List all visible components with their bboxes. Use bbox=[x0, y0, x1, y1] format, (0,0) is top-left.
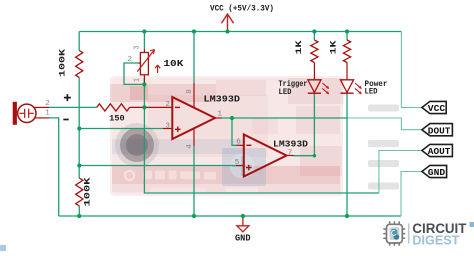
junction: pin4/gnd bbox=[192, 214, 196, 218]
svg-text:5: 5 bbox=[235, 159, 240, 167]
wire: op-amp U1A pin 4 to ground rail bbox=[193, 146, 195, 216]
flag AOUT bbox=[422, 144, 453, 156]
svg-text:VCC: VCC bbox=[428, 104, 446, 114]
svg-text:8: 8 bbox=[186, 89, 194, 94]
wire: op-amp U1A pin 8 to VCC rail bbox=[193, 32, 195, 84]
CircuitDigest logo bbox=[383, 221, 466, 248]
wire: trigger LED top / 1K R5 column bbox=[313, 32, 315, 41]
svg-text:LM393D: LM393D bbox=[204, 94, 241, 105]
svg-text:150: 150 bbox=[109, 114, 125, 124]
svg-text:LM393D: LM393D bbox=[273, 138, 308, 149]
svg-text:100K: 100K bbox=[58, 48, 68, 77]
junction: U1B out / trigger LED bbox=[313, 154, 316, 157]
svg-text:1: 1 bbox=[134, 78, 142, 82]
ground symbol GND bbox=[242, 216, 244, 226]
mic + polarity mark bbox=[64, 94, 71, 101]
microphone MK1 bbox=[13, 102, 50, 125]
wire: pot top to VCC rail bbox=[143, 32, 145, 50]
wire: pot wiper loop bbox=[124, 63, 144, 84]
junction: pot/mic node bbox=[142, 105, 146, 109]
svg-text:3: 3 bbox=[134, 45, 142, 49]
flag GND bbox=[422, 165, 447, 177]
resistor R5 1K (trigger) bbox=[311, 40, 318, 63]
junction: VCC symbol bbox=[225, 29, 229, 33]
svg-text:AOUT: AOUT bbox=[428, 147, 451, 157]
svg-text:LED: LED bbox=[365, 87, 378, 96]
wire: mic pin1 to ground rail bbox=[49, 118, 59, 216]
wire: VCC rail down to VCC flag bbox=[401, 32, 422, 108]
resistor R1 100K (top left) bbox=[76, 51, 83, 78]
mic - polarity mark bbox=[63, 119, 68, 121]
junction: LED2/gnd bbox=[345, 214, 349, 218]
svg-text:DIGEST: DIGEST bbox=[412, 233, 459, 248]
wire: U1B pin 7 output up to trigger LED bbox=[293, 94, 314, 156]
svg-text:100K: 100K bbox=[83, 176, 93, 206]
resistor R2 150 bbox=[97, 104, 130, 111]
resistor R6 1K (power) bbox=[343, 40, 350, 63]
wire: pot bottom to mic node bbox=[143, 78, 145, 107]
svg-text:6: 6 bbox=[236, 138, 241, 146]
svg-text:10K: 10K bbox=[163, 58, 183, 69]
flag DOUT bbox=[422, 124, 453, 136]
resistor R4 100K (bottom left) bbox=[76, 178, 83, 206]
junction: gnd symbol bbox=[241, 214, 245, 218]
stray blue mark right edge bbox=[470, 222, 474, 227]
svg-text:GND: GND bbox=[235, 234, 251, 244]
potentiometer R3 10K bbox=[137, 49, 160, 84]
junction: ref/pin3 bbox=[77, 126, 81, 130]
svg-text:1K: 1K bbox=[329, 39, 339, 54]
svg-text:1: 1 bbox=[45, 110, 50, 118]
svg-text:2: 2 bbox=[128, 56, 133, 64]
junction: pot/VCC rail bbox=[142, 29, 146, 33]
wire: power LED column to rails bbox=[346, 32, 348, 41]
wire: VCC top rail bbox=[79, 31, 401, 33]
wire: U1A output down to U1B pin 6 bbox=[232, 118, 237, 145]
svg-text:2: 2 bbox=[165, 101, 170, 109]
wire: mic pin2 (+) node bbox=[49, 106, 97, 108]
junction: U1A out bbox=[230, 116, 234, 120]
svg-text:GND: GND bbox=[428, 168, 446, 178]
junction: R5/VCC rail bbox=[312, 29, 316, 33]
svg-text:2: 2 bbox=[45, 100, 50, 108]
background PCB module photo (decorative) bbox=[110, 76, 399, 196]
junction: R4/gnd bbox=[77, 214, 81, 218]
svg-text:DOUT: DOUT bbox=[428, 126, 451, 136]
junction: pot wiper bbox=[142, 82, 146, 86]
svg-text:1: 1 bbox=[218, 111, 223, 119]
stray blue mark bottom-left bbox=[0, 245, 6, 251]
svg-text:4: 4 bbox=[186, 144, 194, 149]
op-amp U1A LM393D bbox=[163, 83, 222, 146]
svg-text:3: 3 bbox=[165, 123, 170, 131]
svg-text:VCC (+5V/3.3V): VCC (+5V/3.3V) bbox=[210, 3, 274, 13]
LED2 Power LED bbox=[340, 80, 353, 93]
LED1 Trigger LED bbox=[308, 80, 321, 93]
op-amp U1B LM393D bbox=[236, 135, 294, 177]
svg-text:1K: 1K bbox=[294, 39, 304, 54]
wire: bottom ground rail bbox=[59, 215, 401, 217]
svg-text:7: 7 bbox=[288, 149, 293, 157]
wire: U1A output net to DOUT bbox=[221, 117, 348, 119]
wire: comparator ref to pin 3 bbox=[79, 128, 163, 130]
junction: R6/VCC rail bbox=[345, 29, 349, 33]
flag VCC bbox=[422, 101, 446, 113]
junction: ref/pin5 bbox=[77, 163, 81, 167]
wire: comparator ref to pin 5 bbox=[79, 165, 236, 167]
wire: left bias column (R1/R4 divider) bbox=[78, 32, 80, 51]
junction: pin8/VCC rail bbox=[192, 29, 196, 33]
svg-text:LED: LED bbox=[279, 88, 292, 97]
wire: ground rail up to GND flag bbox=[401, 172, 422, 217]
VCC supply symbol bbox=[221, 14, 233, 32]
wire: AOUT tap down from mic node bbox=[144, 107, 379, 193]
